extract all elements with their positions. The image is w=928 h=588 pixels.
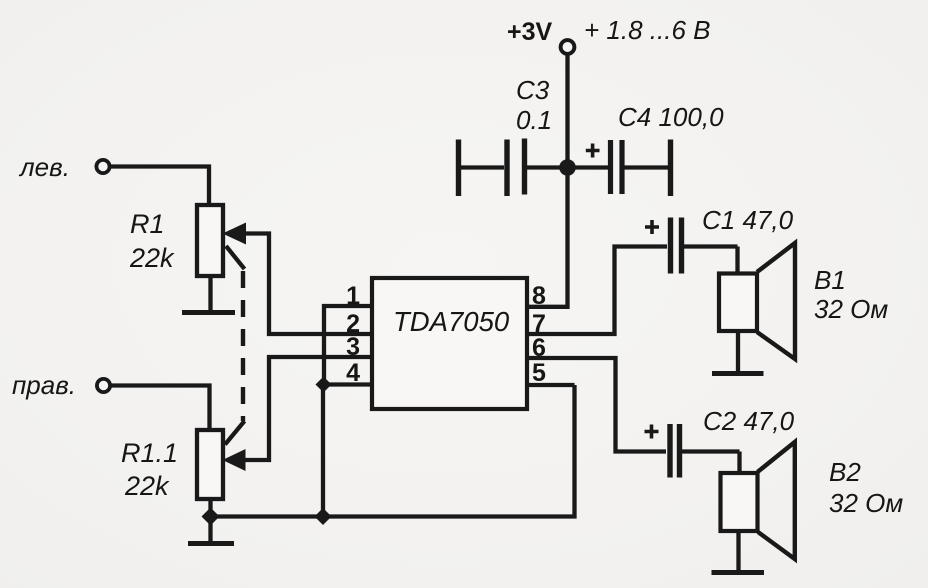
speaker B2 (721, 473, 758, 531)
svg-text:C2 47,0: C2 47,0 (703, 406, 795, 436)
svg-text:+ 1.8 ...6 В: + 1.8 ...6 В (584, 15, 710, 45)
wire pin 6 to C2 (527, 358, 666, 452)
wire B1 to ground (736, 331, 740, 371)
svg-text:лев.: лев. (18, 152, 70, 182)
wire R1 wiper to pin 2 (244, 234, 372, 335)
capacitor C2 (667, 424, 672, 478)
svg-text:R1: R1 (130, 209, 165, 239)
svg-text:1: 1 (346, 282, 360, 310)
C2 plus sign (645, 425, 659, 439)
wire gang link dashed (241, 271, 245, 421)
node junction (315, 508, 332, 525)
svg-text:C4 100,0: C4 100,0 (618, 102, 724, 132)
R1 wiper arrow (223, 223, 247, 245)
wire R1 bottom lead (208, 276, 212, 311)
svg-text:0.1: 0.1 (516, 105, 552, 135)
svg-text:22k: 22k (124, 471, 170, 501)
wire into B1 (735, 247, 739, 274)
svg-text:C3: C3 (516, 75, 550, 105)
wire pin 5 down (527, 383, 575, 387)
svg-text:TDA7050: TDA7050 (393, 306, 510, 337)
R1.1 wiper arrow (223, 449, 246, 471)
svg-text:B2: B2 (829, 457, 861, 487)
svg-text:5: 5 (532, 359, 546, 387)
svg-text:32 Ом: 32 Ом (814, 294, 888, 324)
wire (111, 386, 210, 431)
op-amp U1 TDA7050 IC box (372, 278, 527, 409)
wire bottom rail (211, 385, 575, 517)
capacitor C4 (568, 165, 609, 169)
svg-text:8: 8 (532, 282, 546, 310)
node лев. input terminal (96, 160, 109, 173)
svg-text:6: 6 (532, 334, 546, 362)
wire R1.1 bottom lead (208, 499, 212, 541)
svg-text:4: 4 (346, 359, 360, 387)
capacitor C3 (456, 140, 461, 197)
wire R1.1 wiper to pin 3 (244, 357, 372, 460)
resistor R1 potentiometer body (197, 205, 223, 276)
wire into B2 (737, 452, 741, 474)
node supply junction (559, 159, 576, 176)
speaker B1 (719, 274, 757, 332)
node junction (202, 508, 220, 526)
wire gang link diagonal top (226, 246, 245, 269)
svg-text:22k: 22k (129, 243, 175, 273)
ground (712, 570, 765, 575)
node +3V terminal (561, 40, 575, 54)
ground (182, 310, 235, 315)
svg-text:32 Ом: 32 Ом (829, 488, 903, 518)
C1 plus sign (645, 220, 659, 234)
svg-text:B1: B1 (814, 265, 846, 295)
wire B2 to ground (736, 531, 740, 570)
ground (188, 541, 234, 546)
wire (111, 167, 210, 206)
svg-text:3: 3 (346, 333, 360, 361)
node junction pin4 (316, 377, 332, 393)
svg-text:R1.1: R1.1 (121, 438, 178, 468)
capacitor C1 (668, 218, 673, 274)
wire pin 7 to C1 (527, 247, 667, 335)
wire pin 8 to supply (527, 55, 568, 307)
wire pins 1-4 link (323, 306, 372, 517)
wire gang link diagonal bottom (225, 421, 245, 445)
C4 plus sign (586, 144, 600, 158)
resistor R1.1 potentiometer body (197, 430, 223, 499)
svg-text:+3V: +3V (507, 18, 553, 46)
svg-text:C1 47,0: C1 47,0 (702, 205, 794, 235)
node прав. input terminal (97, 379, 110, 392)
ground (712, 371, 764, 376)
svg-text:прав.: прав. (12, 370, 76, 400)
